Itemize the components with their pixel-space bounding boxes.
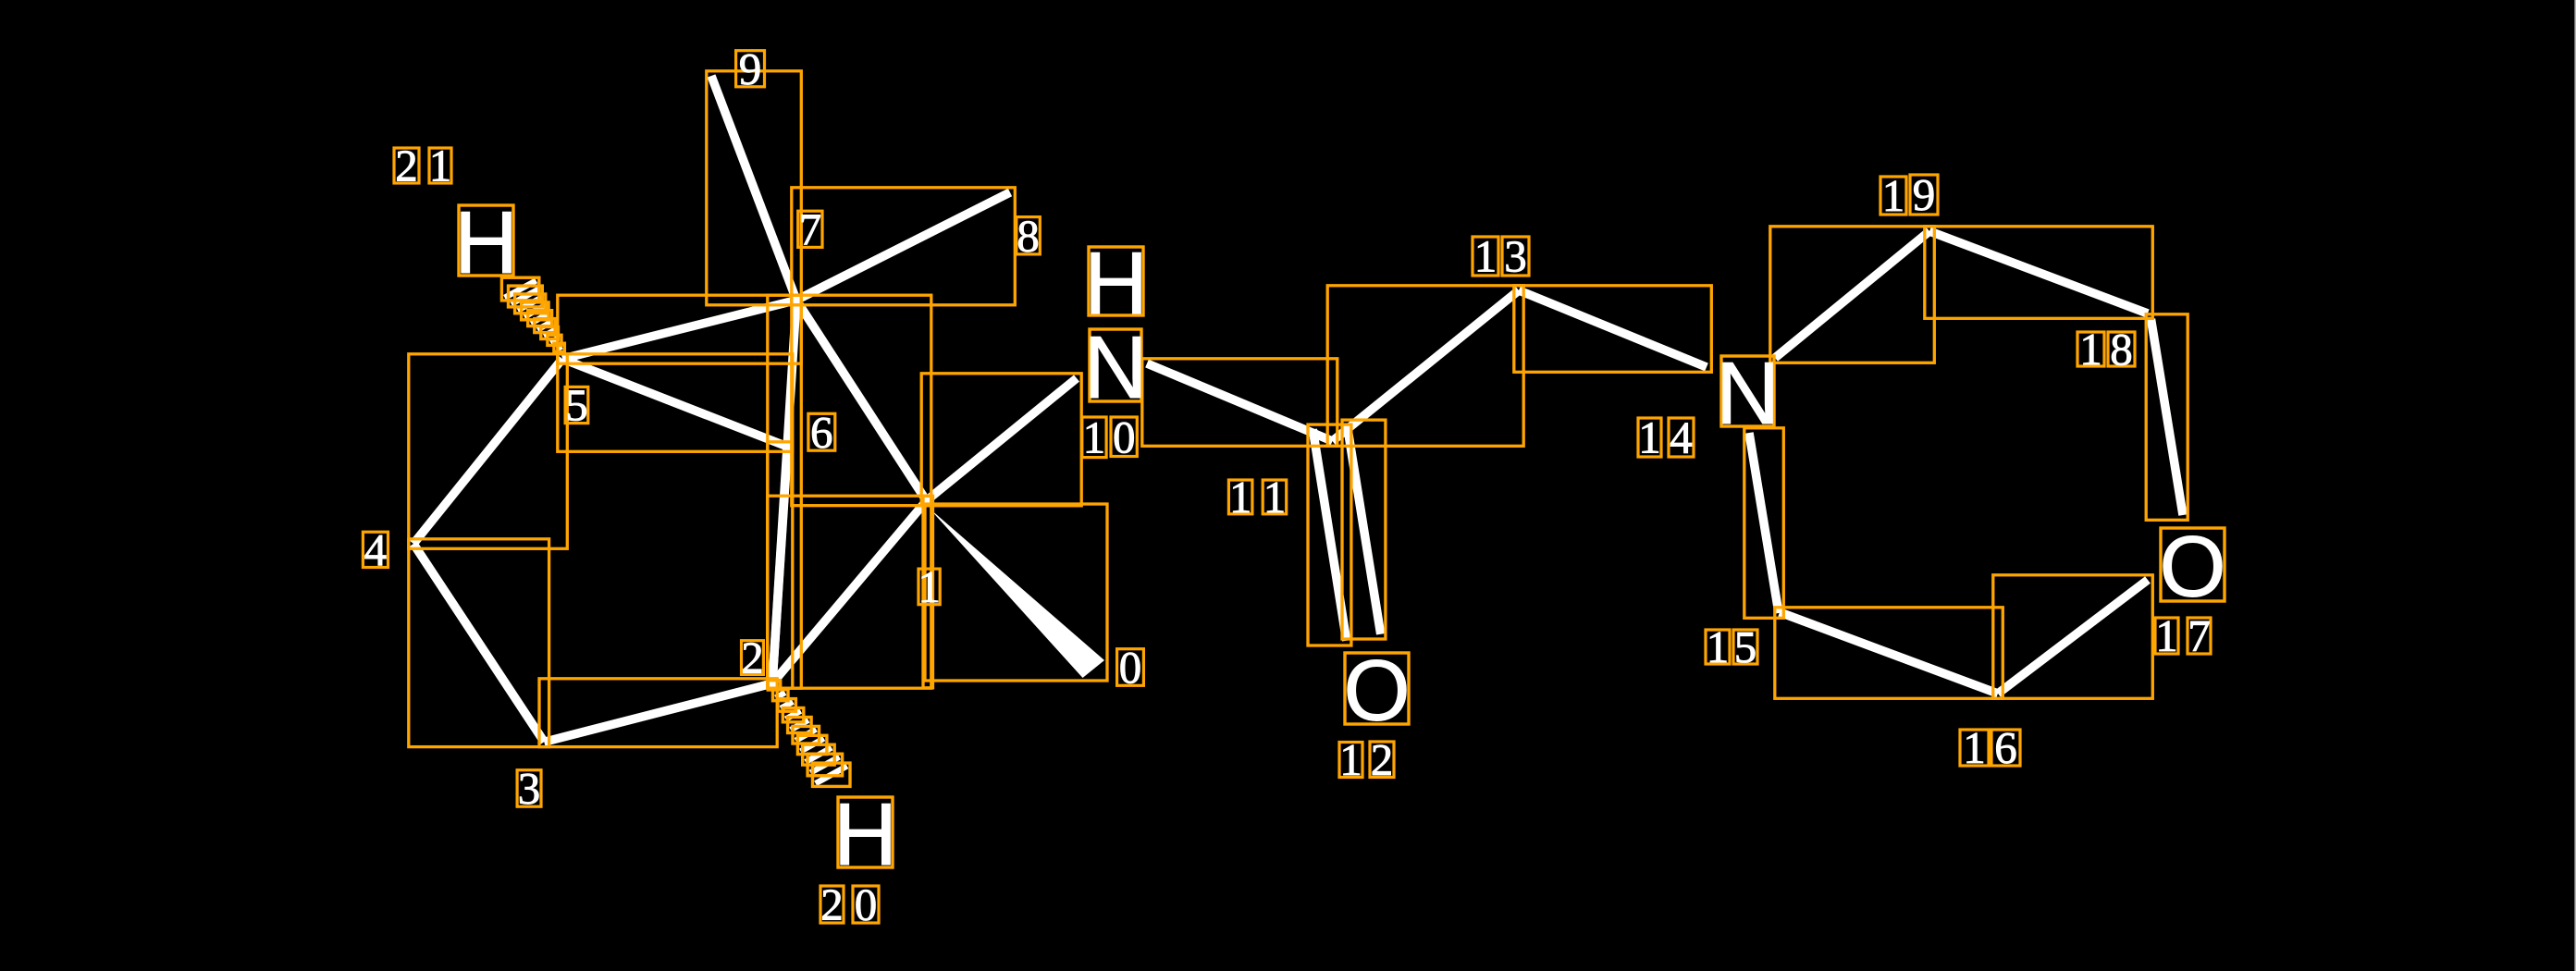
svg-text:H: H xyxy=(454,193,518,292)
svg-text:9: 9 xyxy=(739,43,762,94)
svg-text:4: 4 xyxy=(364,524,388,575)
svg-text:1: 1 xyxy=(918,561,941,612)
svg-text:3: 3 xyxy=(518,763,541,814)
svg-text:1: 1 xyxy=(2155,610,2178,661)
svg-text:0: 0 xyxy=(1119,642,1142,693)
svg-text:1: 1 xyxy=(429,141,452,191)
svg-text:3: 3 xyxy=(1504,231,1527,282)
svg-text:8: 8 xyxy=(1017,210,1040,261)
svg-text:1: 1 xyxy=(1882,170,1905,221)
svg-text:5: 5 xyxy=(565,380,588,431)
svg-text:2: 2 xyxy=(741,633,764,683)
svg-text:0: 0 xyxy=(855,879,878,930)
svg-text:1: 1 xyxy=(1263,472,1287,522)
svg-text:1: 1 xyxy=(1707,621,1730,672)
svg-text:6: 6 xyxy=(810,407,833,458)
svg-text:6: 6 xyxy=(1994,722,2017,773)
svg-text:1: 1 xyxy=(1229,472,1252,522)
svg-text:1: 1 xyxy=(1638,412,1661,463)
svg-text:7: 7 xyxy=(799,203,822,254)
svg-text:0: 0 xyxy=(1113,412,1136,462)
svg-text:4: 4 xyxy=(1670,412,1693,463)
svg-text:9: 9 xyxy=(1913,169,1936,220)
svg-text:7: 7 xyxy=(2188,610,2211,661)
svg-text:1: 1 xyxy=(1474,231,1498,282)
svg-text:O: O xyxy=(2159,518,2225,614)
svg-text:1: 1 xyxy=(1083,412,1106,462)
svg-text:8: 8 xyxy=(2110,324,2133,375)
svg-text:H: H xyxy=(833,785,897,884)
svg-text:O: O xyxy=(1343,642,1410,738)
svg-text:5: 5 xyxy=(1734,621,1757,672)
svg-text:1: 1 xyxy=(2079,324,2102,375)
svg-text:1: 1 xyxy=(1963,722,1986,773)
svg-text:2: 2 xyxy=(820,879,844,930)
svg-text:1: 1 xyxy=(1339,734,1362,785)
svg-text:N: N xyxy=(1716,344,1780,443)
svg-text:2: 2 xyxy=(395,141,418,191)
svg-text:2: 2 xyxy=(1371,734,1394,785)
svg-text:N: N xyxy=(1083,318,1147,417)
